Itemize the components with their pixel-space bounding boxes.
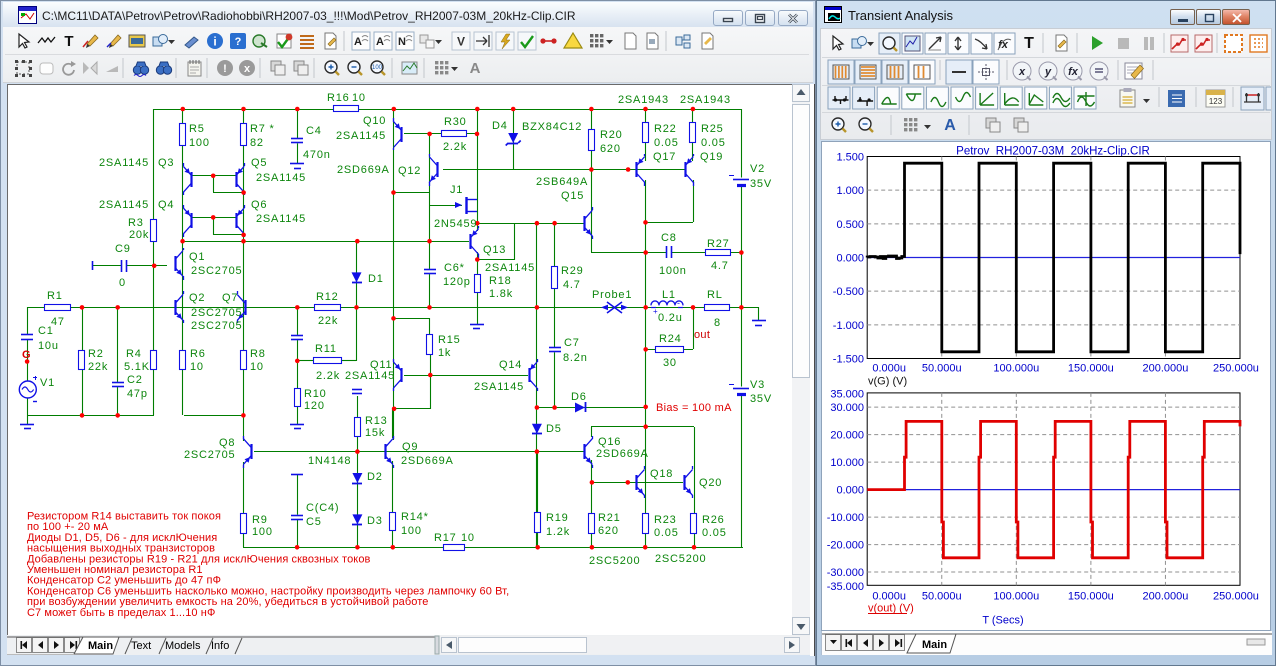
svg-text:10.000: 10.000	[830, 457, 864, 469]
svg-text:R20: R20	[600, 129, 623, 141]
svg-text:1k: 1k	[438, 347, 451, 359]
svg-text:D6: D6	[571, 391, 587, 403]
svg-text:T (Secs): T (Secs)	[982, 615, 1023, 627]
svg-text:R12: R12	[316, 291, 339, 303]
svg-text:A: A	[944, 117, 956, 134]
svg-text:15k: 15k	[365, 427, 385, 439]
svg-text:2.2k: 2.2k	[316, 370, 340, 382]
svg-text:-0.500: -0.500	[833, 286, 864, 298]
svg-text:50.000u: 50.000u	[922, 363, 962, 375]
svg-text:35V: 35V	[750, 178, 772, 190]
svg-text:2SA1145: 2SA1145	[256, 172, 306, 184]
svg-text:V3: V3	[750, 379, 765, 391]
svg-text:Q5: Q5	[251, 157, 267, 169]
svg-text:Text: Text	[131, 640, 151, 652]
svg-text:-30.000: -30.000	[827, 567, 864, 579]
svg-text:R26: R26	[702, 514, 725, 526]
svg-text:Bias = 100 mA: Bias = 100 mA	[656, 402, 732, 414]
svg-text:C4: C4	[306, 125, 322, 137]
svg-text:22k: 22k	[88, 361, 108, 373]
svg-text:620: 620	[598, 525, 619, 537]
svg-text:2SA1943: 2SA1943	[680, 94, 731, 106]
svg-text:-10.000: -10.000	[827, 512, 864, 524]
svg-text:Q16: Q16	[598, 436, 621, 448]
svg-text:2SC5200: 2SC5200	[589, 555, 640, 567]
svg-text:47p: 47p	[127, 388, 148, 400]
svg-text:J1: J1	[450, 184, 463, 196]
svg-text:R13: R13	[365, 415, 388, 427]
svg-text:R5: R5	[189, 123, 205, 135]
svg-text:10: 10	[352, 92, 366, 104]
svg-text:D2: D2	[367, 471, 383, 483]
svg-text:-1.000: -1.000	[833, 320, 864, 332]
svg-text:A: A	[376, 36, 384, 48]
svg-text:Models: Models	[165, 640, 201, 652]
svg-text:0.05: 0.05	[701, 137, 726, 149]
svg-text:Probe1: Probe1	[592, 289, 632, 301]
svg-text:R9: R9	[252, 514, 268, 526]
svg-text:fx: fx	[1068, 66, 1079, 78]
svg-text:Q3: Q3	[158, 157, 174, 169]
svg-text:20.000: 20.000	[830, 430, 864, 442]
svg-text:10: 10	[250, 361, 264, 373]
svg-text:out: out	[694, 329, 710, 341]
svg-text:50.000u: 50.000u	[922, 591, 962, 603]
svg-text:0: 0	[119, 277, 126, 289]
svg-text:Petrov_RH2007-03M_20kHz-Clip.C: Petrov_RH2007-03M_20kHz-Clip.CIR	[956, 146, 1150, 158]
svg-text:250.000u: 250.000u	[1213, 363, 1259, 375]
svg-text:R29: R29	[561, 265, 584, 277]
svg-text:2SC2705: 2SC2705	[191, 307, 242, 319]
svg-text:100: 100	[372, 65, 383, 71]
svg-text:C7: C7	[564, 337, 580, 349]
svg-text:BZX84C12: BZX84C12	[522, 121, 582, 133]
svg-text:1.2k: 1.2k	[546, 526, 570, 538]
svg-text:A: A	[354, 36, 362, 48]
svg-text:-35.000: -35.000	[827, 581, 864, 593]
svg-text:470n: 470n	[303, 149, 331, 161]
svg-text:250.000u: 250.000u	[1213, 591, 1259, 603]
svg-text:Q18: Q18	[650, 468, 673, 480]
svg-text:4.7: 4.7	[711, 260, 729, 272]
svg-text:100.000u: 100.000u	[993, 363, 1039, 375]
svg-text:C8: C8	[661, 232, 677, 244]
svg-text:2SA1145: 2SA1145	[474, 381, 524, 393]
svg-text:-20.000: -20.000	[827, 540, 864, 552]
svg-text:2SA1145: 2SA1145	[485, 262, 535, 274]
svg-text:1N4148: 1N4148	[308, 455, 351, 467]
svg-text:D1: D1	[368, 273, 384, 285]
svg-text:?: ?	[235, 36, 242, 48]
svg-text:2SC2705: 2SC2705	[191, 320, 242, 332]
svg-text:Q9: Q9	[402, 441, 418, 453]
svg-text:x: x	[1018, 66, 1026, 78]
svg-text:Q10: Q10	[363, 115, 386, 127]
svg-text:0.500: 0.500	[836, 219, 864, 231]
svg-text:C(C4): C(C4)	[306, 502, 339, 514]
svg-text:R3: R3	[128, 217, 144, 229]
svg-text:8.2n: 8.2n	[563, 352, 588, 364]
svg-text:5.1K: 5.1K	[124, 361, 150, 373]
svg-text:R30: R30	[444, 116, 467, 128]
svg-text:22k: 22k	[318, 315, 338, 327]
svg-text:-: -	[677, 298, 680, 308]
svg-text:R18: R18	[489, 275, 512, 287]
svg-text:Q15: Q15	[561, 190, 584, 202]
svg-text:35V: 35V	[750, 393, 772, 405]
svg-text:R17: R17	[434, 532, 457, 544]
svg-text:V: V	[457, 35, 465, 49]
svg-text:L1: L1	[662, 289, 676, 301]
svg-text:V2: V2	[750, 163, 765, 175]
svg-text:Main: Main	[88, 640, 113, 652]
svg-text:D5: D5	[546, 423, 562, 435]
svg-text:Q4: Q4	[158, 199, 174, 211]
svg-text:Q1: Q1	[189, 251, 205, 263]
svg-text:0.05: 0.05	[654, 137, 679, 149]
svg-text:100.000u: 100.000u	[993, 591, 1039, 603]
svg-text:0.000: 0.000	[836, 485, 864, 497]
svg-text:R7 *: R7 *	[250, 123, 275, 135]
svg-text:150.000u: 150.000u	[1068, 363, 1114, 375]
svg-text:Q6: Q6	[251, 199, 267, 211]
svg-text:0.000: 0.000	[836, 253, 864, 265]
svg-text:R8: R8	[250, 348, 266, 360]
svg-text:R27: R27	[707, 238, 730, 250]
svg-text:0.2u: 0.2u	[658, 312, 683, 324]
svg-text:A: A	[470, 60, 481, 77]
svg-text:82: 82	[250, 137, 264, 149]
svg-text:2SA1145: 2SA1145	[99, 157, 149, 169]
svg-text:R11: R11	[315, 343, 337, 355]
svg-text:R10: R10	[304, 388, 327, 400]
svg-text:C1: C1	[38, 325, 54, 337]
svg-text:10: 10	[461, 532, 475, 544]
svg-text:R23: R23	[654, 514, 677, 526]
svg-text:200.000u: 200.000u	[1142, 363, 1188, 375]
svg-text:2SC2705: 2SC2705	[191, 265, 242, 277]
svg-text:R1: R1	[47, 290, 63, 302]
svg-text:120: 120	[304, 400, 325, 412]
svg-text:30: 30	[663, 357, 677, 369]
svg-text:30.000: 30.000	[830, 402, 864, 414]
svg-text:v(out) (V): v(out) (V)	[868, 603, 914, 615]
svg-text:100n: 100n	[659, 265, 687, 277]
svg-text:2SA1943: 2SA1943	[618, 94, 669, 106]
svg-text:35.000: 35.000	[830, 388, 864, 400]
svg-text:Q14: Q14	[499, 359, 522, 371]
svg-text:100: 100	[189, 137, 210, 149]
svg-text:120p: 120p	[443, 276, 471, 288]
svg-text:R14*: R14*	[401, 511, 429, 523]
svg-text:Q7: Q7	[222, 292, 238, 304]
svg-text:0.000u: 0.000u	[872, 591, 906, 603]
svg-text:2SC2705: 2SC2705	[184, 449, 235, 461]
svg-text:Q13: Q13	[483, 244, 506, 256]
svg-text:2N5459: 2N5459	[434, 218, 477, 230]
svg-text:i: i	[213, 35, 216, 49]
svg-text:2SA1145: 2SA1145	[336, 130, 386, 142]
svg-text:1.500: 1.500	[836, 152, 864, 164]
svg-text:C5: C5	[306, 516, 322, 528]
svg-text:R4: R4	[126, 348, 142, 360]
svg-text:D4: D4	[492, 120, 508, 132]
svg-text:C6*: C6*	[444, 262, 465, 274]
svg-text:20k: 20k	[129, 229, 149, 241]
svg-text:y: y	[1044, 66, 1052, 78]
svg-text:C9: C9	[115, 243, 131, 255]
svg-text:Q8: Q8	[219, 437, 235, 449]
svg-text:2SD669A: 2SD669A	[401, 455, 454, 467]
svg-text:Main: Main	[922, 639, 947, 651]
svg-text:8: 8	[714, 317, 721, 329]
svg-text:R16: R16	[327, 92, 350, 104]
svg-text:R6: R6	[190, 348, 206, 360]
svg-text:!: !	[223, 63, 227, 75]
svg-text:0.05: 0.05	[654, 527, 679, 539]
svg-text:2SC5200: 2SC5200	[655, 553, 706, 565]
svg-text:Q19: Q19	[700, 151, 723, 163]
svg-text:R21: R21	[598, 512, 621, 524]
svg-text:2SA1145: 2SA1145	[256, 213, 306, 225]
svg-text:x: x	[244, 63, 251, 75]
svg-text:R24: R24	[659, 333, 682, 345]
svg-text:R19: R19	[546, 512, 569, 524]
svg-text:0.000u: 0.000u	[872, 363, 906, 375]
svg-text:10u: 10u	[38, 340, 59, 352]
svg-text:620: 620	[600, 143, 621, 155]
svg-text:Q20: Q20	[699, 477, 722, 489]
svg-text:0.05: 0.05	[702, 527, 727, 539]
svg-text:G: G	[22, 349, 31, 361]
svg-text:1.000: 1.000	[836, 185, 864, 197]
svg-text:2.2k: 2.2k	[443, 141, 467, 153]
svg-text:R15: R15	[438, 334, 461, 346]
svg-text:150.000u: 150.000u	[1068, 591, 1114, 603]
svg-text:2SA1145: 2SA1145	[345, 370, 395, 382]
svg-text:R25: R25	[701, 123, 724, 135]
svg-text:C2: C2	[127, 374, 143, 386]
svg-text:2SA1145: 2SA1145	[99, 199, 149, 211]
svg-text:RL: RL	[707, 289, 723, 301]
svg-text:Info: Info	[211, 640, 229, 652]
svg-text:С7 может быть в пределах 1...1: С7 может быть в пределах 1...10 нФ	[27, 607, 215, 619]
svg-text:V1: V1	[40, 377, 55, 389]
svg-text:2SB649A: 2SB649A	[536, 176, 588, 188]
svg-text:T: T	[64, 33, 73, 50]
svg-text:200.000u: 200.000u	[1142, 591, 1188, 603]
svg-text:v(G) (V): v(G) (V)	[868, 376, 907, 388]
svg-text:2SD669A: 2SD669A	[596, 448, 649, 460]
svg-text:R2: R2	[88, 348, 104, 360]
svg-text:Q2: Q2	[189, 292, 205, 304]
svg-text:R22: R22	[654, 123, 677, 135]
svg-text:123: 123	[1209, 97, 1223, 106]
svg-text:4.7: 4.7	[563, 279, 581, 291]
svg-text:D3: D3	[367, 515, 383, 527]
svg-text:Q17: Q17	[653, 151, 676, 163]
svg-text:-1.500: -1.500	[833, 354, 864, 366]
svg-text:2SD669A: 2SD669A	[337, 164, 390, 176]
svg-text:1.8k: 1.8k	[489, 288, 513, 300]
svg-text:10: 10	[190, 361, 204, 373]
svg-text:100: 100	[252, 526, 273, 538]
svg-text:Q12: Q12	[398, 165, 421, 177]
svg-text:100: 100	[401, 525, 422, 537]
svg-text:T: T	[1024, 35, 1034, 52]
svg-text:N: N	[398, 36, 406, 48]
